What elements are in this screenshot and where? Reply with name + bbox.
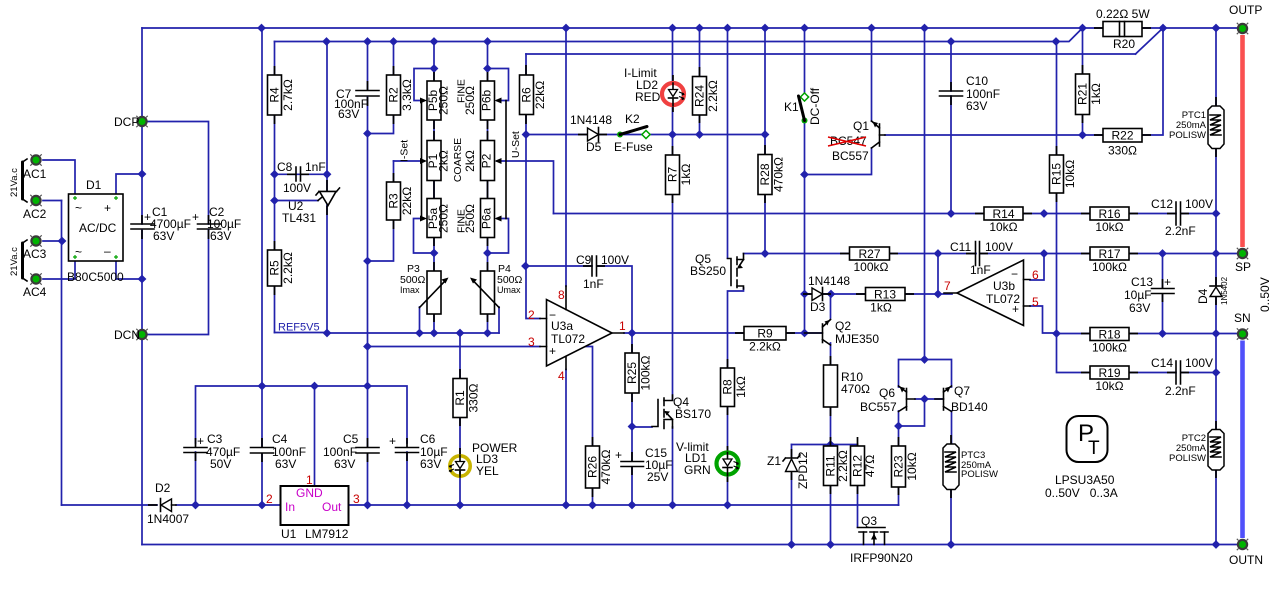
svg-text:AC3: AC3 [23, 247, 47, 261]
svg-text:U3b: U3b [993, 279, 1015, 293]
wire pin7 stub line [938, 293, 952, 295]
svg-text:C8: C8 [277, 160, 293, 174]
svg-text:DC-Off: DC-Off [808, 87, 822, 125]
resistor R7 [666, 155, 694, 195]
svg-text:1nF: 1nF [305, 160, 326, 174]
svg-text:Out: Out [322, 500, 342, 514]
svg-text:POLISW: POLISW [1169, 130, 1206, 141]
wire R25 column [631, 333, 633, 427]
wire C9 line y=266 [526, 266, 632, 333]
svg-text:8: 8 [558, 288, 565, 302]
svg-text:0.22Ω 5W: 0.22Ω 5W [1096, 7, 1150, 21]
svg-text:C10: C10 [966, 74, 988, 88]
svg-text:R22: R22 [1111, 129, 1133, 143]
resistor R10 [824, 365, 871, 407]
svg-text:C13: C13 [1131, 275, 1153, 289]
zener Z1 ZPD12 [767, 451, 810, 489]
svg-text:C4: C4 [272, 432, 288, 446]
svg-text:+: + [1164, 275, 1171, 289]
LED LD2 I-Limit (red) [624, 66, 685, 106]
svg-text:Umax: Umax [497, 285, 521, 295]
svg-text:330Ω: 330Ω [467, 383, 481, 412]
svg-text:R15: R15 [1050, 163, 1064, 185]
I-Set linkage [399, 101, 422, 219]
transistor Q7 BD140 [935, 384, 988, 414]
svg-text:1kΩ: 1kΩ [1089, 83, 1103, 105]
svg-text:Imax: Imax [400, 285, 420, 295]
svg-text:MJE350: MJE350 [835, 332, 879, 346]
resistor R25 [625, 353, 653, 393]
svg-text:7: 7 [944, 279, 951, 293]
svg-text:1N4007: 1N4007 [147, 512, 189, 526]
wire Q4 gate link [632, 426, 652, 428]
capacitor C4 [251, 432, 307, 471]
capacitor C12 [1151, 197, 1213, 238]
svg-text:100kΩ: 100kΩ [854, 260, 889, 274]
diode D4 [1196, 276, 1229, 305]
capacitor C1 [131, 205, 191, 243]
LED LD1 V-limit (green) [676, 440, 740, 477]
wire U-set sense drop y=213.5 [554, 213, 985, 215]
svg-text:R6: R6 [520, 87, 534, 103]
pad SN [1234, 311, 1251, 340]
svg-text:POLISW: POLISW [961, 469, 998, 480]
svg-text:R18: R18 [1098, 328, 1120, 342]
svg-text:OUTP: OUTP [1229, 3, 1262, 17]
svg-text:D5: D5 [586, 140, 602, 154]
svg-text:63V: 63V [210, 229, 231, 243]
svg-text:3.3kΩ: 3.3kΩ [400, 79, 414, 111]
svg-text:1kΩ: 1kΩ [734, 376, 748, 398]
svg-text:DCN: DCN [114, 328, 140, 342]
potentiometer P6b [463, 81, 502, 120]
wire R21 column [1082, 28, 1084, 135]
svg-text:C11: C11 [950, 240, 971, 254]
svg-text:AC2: AC2 [23, 207, 47, 221]
svg-text:R2: R2 [387, 87, 401, 103]
svg-text:T: T [1088, 438, 1100, 459]
svg-text:10kΩ: 10kΩ [1095, 379, 1123, 393]
resistor R15 [1050, 155, 1078, 193]
potentiometer P5b [420, 81, 451, 120]
pad SP [1235, 248, 1251, 274]
resistor R12 [851, 446, 878, 486]
svg-text:R17: R17 [1098, 247, 1120, 261]
svg-text:D1: D1 [86, 178, 102, 192]
resistor R3 [387, 182, 415, 220]
svg-text:R13: R13 [874, 288, 896, 302]
resistor R9 [744, 327, 786, 354]
svg-text:100kΩ: 100kΩ [639, 355, 653, 390]
svg-text:100V: 100V [985, 240, 1013, 254]
capacitor C8 [277, 160, 326, 195]
svg-text:63V: 63V [334, 457, 355, 471]
svg-text:1: 1 [306, 473, 313, 487]
svg-text:3: 3 [528, 335, 535, 349]
wire AC1 to D1 [43, 160, 75, 194]
wire pin2 column x=526 [526, 135, 540, 319]
svg-text:D4: D4 [1196, 288, 1210, 304]
svg-text:POLISW: POLISW [1169, 453, 1206, 464]
switch K1 DC-Off [784, 87, 822, 125]
svg-text:5: 5 [1032, 295, 1039, 309]
svg-text:U-Set: U-Set [510, 131, 522, 158]
svg-text:D3: D3 [810, 300, 826, 314]
svg-text:100kΩ: 100kΩ [1092, 341, 1127, 355]
pad AC2 [23, 195, 47, 221]
svg-text:2.2kΩ: 2.2kΩ [749, 340, 781, 354]
capacitor C13 [1124, 275, 1174, 315]
wire R6 column [525, 54, 527, 135]
mosfet Q4 BS170 [652, 395, 711, 429]
svg-text:3: 3 [353, 492, 360, 506]
PT logo [1045, 416, 1118, 500]
resistor R17 [1090, 247, 1129, 274]
svg-text:AC/DC: AC/DC [79, 221, 117, 235]
svg-text:R25: R25 [625, 362, 639, 384]
svg-text:0..50V: 0..50V [1258, 277, 1272, 312]
mosfet Q3 IRFP90N20 [850, 514, 913, 565]
resistor R11 [824, 446, 851, 486]
wire C3 bottom [195, 452, 197, 505]
wire Z1 column [791, 445, 793, 545]
svg-text:OUTN: OUTN [1229, 553, 1263, 567]
svg-text:K1: K1 [784, 100, 799, 114]
svg-text:AC4: AC4 [23, 285, 47, 299]
mosfet Q5 BS250 [690, 252, 744, 289]
svg-text:R21: R21 [1076, 83, 1090, 105]
svg-text:2.2nF: 2.2nF [1165, 384, 1196, 398]
wire diagonal bus3 to bus1 [1136, 28, 1164, 54]
svg-text:In: In [285, 500, 295, 514]
resistor R14 [984, 207, 1023, 234]
trimmer P3 [400, 263, 449, 314]
svg-text:Q7: Q7 [954, 384, 970, 398]
wire Q6-Q7 emitter bridge [899, 28, 952, 387]
svg-text:10µF: 10µF [1124, 288, 1152, 302]
svg-text:E-Fuse: E-Fuse [614, 140, 653, 154]
wire R3 column [368, 161, 394, 261]
wire Q2 emitter [830, 294, 832, 318]
transistor Q6 BC557 [860, 386, 915, 414]
wire P3 wiper drop [419, 307, 421, 333]
pad OUTN [1229, 539, 1263, 567]
svg-text:10kΩ: 10kΩ [1063, 160, 1077, 188]
resistor R28 [758, 155, 786, 195]
svg-text:2.2kΩ: 2.2kΩ [836, 450, 850, 482]
svg-text:+: + [615, 448, 622, 462]
op-amp U3a [528, 286, 626, 383]
capacitor C10 [940, 74, 1001, 113]
resistor R21 [1076, 74, 1104, 115]
svg-text:R27: R27 [858, 247, 880, 261]
wire Q1 base to R21-R22 y=135 [885, 28, 1163, 135]
wire Q1 emitter column [871, 28, 873, 121]
resistor R19 [1090, 366, 1129, 393]
wire R15 column x=1056.5 [1056, 42, 1058, 334]
regulator U1 LM7912 [266, 473, 360, 541]
svg-text:100V: 100V [283, 181, 311, 195]
svg-text:R5: R5 [268, 260, 282, 276]
svg-text:250Ω: 250Ω [437, 204, 451, 233]
svg-text:BC557: BC557 [832, 149, 869, 163]
wire R23 rail corner [898, 504, 900, 506]
svg-text:R23: R23 [892, 455, 906, 477]
wire R14-R16 line [1023, 213, 1216, 215]
resistor R8 [721, 368, 749, 407]
wire I-set pot column x=434 [433, 42, 435, 334]
wire Q2 collector to R10 [830, 343, 832, 446]
svg-text:R28: R28 [758, 163, 772, 185]
svg-text:U1: U1 [281, 527, 297, 541]
svg-text:Q6: Q6 [879, 386, 895, 400]
wire raw-minus column x=262 [261, 28, 263, 386]
capacitor C15 [615, 446, 673, 484]
pad AC4 [23, 273, 47, 299]
svg-text:Z1: Z1 [767, 454, 781, 468]
svg-text:R26: R26 [586, 456, 600, 478]
wire Q5 source to R8 [728, 288, 744, 368]
svg-text:TL072: TL072 [551, 332, 585, 346]
svg-text:63V: 63V [338, 107, 359, 121]
wire D1 plus out [116, 174, 142, 194]
svg-text:250Ω: 250Ω [437, 86, 451, 115]
svg-text:47Ω: 47Ω [863, 455, 877, 477]
svg-text:2: 2 [528, 308, 535, 322]
svg-text:LM7912: LM7912 [305, 527, 349, 541]
svg-text:TL072: TL072 [986, 292, 1020, 306]
svg-text:C9: C9 [576, 253, 592, 267]
PTC2 polyswitch [1169, 430, 1224, 471]
svg-text:FINE: FINE [456, 209, 468, 233]
wire P2 wiper link y=161 [497, 161, 554, 214]
wire K1 to Q1 collector [805, 148, 872, 175]
svg-text:R4: R4 [268, 87, 282, 103]
capacitor C2 [192, 205, 241, 243]
svg-text:R14: R14 [992, 207, 1014, 221]
wire R12 to Q3 gate [857, 445, 859, 528]
svg-text:R7: R7 [666, 167, 680, 183]
svg-text:+: + [549, 344, 556, 358]
wire K1 column x=804.5 [804, 28, 806, 333]
component lead stubs [142, 28, 1216, 505]
wire R17 line y=253.5 [1044, 253, 1238, 255]
svg-text:25V: 25V [647, 470, 668, 484]
thick red sense link OUTP-SP [1240, 35, 1245, 247]
svg-text:P6a: P6a [480, 208, 494, 230]
resistor R20 0.22ohm 5W [1096, 7, 1150, 51]
pad DCP [114, 115, 148, 129]
svg-text:4: 4 [558, 369, 565, 383]
svg-text:IRFP90N20: IRFP90N20 [850, 551, 913, 565]
svg-text:1nF: 1nF [970, 263, 991, 277]
wire P1 wiper link y=161 [394, 160, 425, 162]
wire R23 column [898, 426, 900, 505]
wire pin3 line y=346.5 [368, 346, 541, 348]
wire DCP to C2 column [142, 122, 209, 335]
capacitor C11 [950, 240, 1013, 277]
pad DCN [114, 328, 148, 342]
svg-text:C12: C12 [1151, 197, 1173, 211]
svg-text:U3a: U3a [551, 319, 573, 333]
wire C13 column [1162, 254, 1164, 334]
svg-text:C3: C3 [207, 432, 223, 446]
resistor R23 [892, 446, 920, 487]
svg-text:63V: 63V [153, 229, 174, 243]
svg-text:1: 1 [619, 319, 626, 333]
wire pin1 node to R9 y=333 [624, 332, 822, 334]
svg-text:470Ω: 470Ω [841, 382, 870, 396]
wire REF5V5 underline [275, 332, 328, 334]
resistor R16 [1090, 207, 1129, 234]
svg-text:100V: 100V [1185, 197, 1213, 211]
svg-text:GND: GND [296, 486, 323, 500]
wire R10 node y=444.5 [792, 444, 858, 446]
wire R11 bottom [830, 486, 832, 545]
capacitor C9 [576, 253, 629, 291]
svg-text:Q2: Q2 [835, 319, 851, 333]
potentiometer P6a [463, 199, 502, 238]
svg-text:R8: R8 [721, 379, 735, 395]
svg-text:B80C5000: B80C5000 [67, 270, 124, 284]
wire pin4 column x=566 [565, 370, 567, 506]
svg-text:0..50V 0..3A: 0..50V 0..3A [1045, 486, 1118, 500]
svg-text:TL431: TL431 [282, 211, 316, 225]
svg-text:6: 6 [1032, 268, 1039, 282]
svg-text:+: + [192, 210, 199, 224]
trimmer P4 [470, 263, 523, 314]
wire LD2-R7 column x=672.5 [672, 28, 674, 400]
diode D3 1N4148 [808, 274, 850, 314]
svg-text:BC557: BC557 [860, 400, 897, 414]
svg-text:P6b: P6b [480, 90, 494, 112]
resistor R5 [268, 250, 296, 286]
svg-text:SP: SP [1235, 260, 1251, 274]
pad AC3 [23, 235, 47, 261]
svg-text:10kΩ: 10kΩ [1095, 220, 1123, 234]
svg-text:+: + [197, 434, 204, 448]
svg-text:1kΩ: 1kΩ [679, 164, 693, 186]
svg-text:330Ω: 330Ω [1108, 144, 1137, 158]
wire R18-SN line y=333.5 [1057, 333, 1239, 335]
svg-text:2.2kΩ: 2.2kΩ [281, 252, 295, 284]
svg-text:Q3: Q3 [861, 514, 877, 528]
wire P5a wiper loop [414, 219, 435, 254]
resistor R27 [850, 247, 890, 274]
svg-text:22kΩ: 22kΩ [400, 187, 414, 215]
svg-text:2kΩ: 2kΩ [463, 150, 477, 172]
PTC1 polyswitch [1169, 106, 1224, 149]
wire Q5 drain link [744, 253, 766, 255]
wire negative rail y=505 [62, 504, 899, 506]
potentiometer P2 [463, 141, 502, 181]
svg-text:1kΩ: 1kΩ [870, 301, 892, 315]
wire C7-C5 column x=367.5 [367, 42, 369, 506]
svg-text:10kΩ: 10kΩ [989, 220, 1017, 234]
svg-text:D2: D2 [155, 481, 171, 495]
svg-text:1N4148: 1N4148 [570, 113, 612, 127]
svg-text:C6: C6 [420, 432, 436, 446]
wire Q6-Q7 base link [915, 398, 942, 400]
svg-text:2kΩ: 2kΩ [437, 150, 451, 172]
svg-text:BS250: BS250 [690, 264, 726, 278]
svg-text:50V: 50V [210, 457, 231, 471]
wire P5b wiper loop [414, 69, 434, 101]
wire pin7 feedback column [937, 254, 939, 295]
wire R8 to LD1 [727, 407, 729, 506]
wire C15 column [631, 427, 633, 505]
svg-text:2.2kΩ: 2.2kΩ [706, 80, 720, 112]
wire U-set pot column x=487.5 [487, 42, 489, 334]
svg-text:100V: 100V [601, 253, 629, 267]
svg-text:22kΩ: 22kΩ [533, 81, 547, 109]
wire pin5 link [1030, 306, 1057, 333]
resistor R13 [866, 288, 906, 315]
svg-text:63V: 63V [420, 457, 441, 471]
svg-text:2.2nF: 2.2nF [1165, 224, 1196, 238]
svg-text:R24: R24 [693, 85, 707, 107]
svg-text:470kΩ: 470kΩ [772, 157, 786, 192]
wire C10 column x=951 [950, 42, 952, 214]
svg-text:1N5402: 1N5402 [1220, 276, 1229, 305]
resistor R2 [387, 75, 415, 115]
capacitor C7 [334, 87, 379, 121]
wire R26 top link [584, 347, 593, 447]
svg-text:Q1: Q1 [853, 119, 869, 133]
resistor R22 [1103, 129, 1142, 158]
resistor R6 [520, 75, 548, 115]
svg-text:63V: 63V [966, 99, 987, 113]
wire R26 bottom [592, 488, 594, 505]
svg-text:21Va.c: 21Va.c [9, 247, 20, 276]
transistor Q1 BC557 [828, 119, 885, 163]
potentiometer P1 [420, 141, 451, 181]
capacitor C6 [389, 432, 448, 471]
wire C8 link y=174.3 [275, 173, 328, 175]
svg-text:C5: C5 [343, 432, 359, 446]
wire cap top bus y=386 [196, 386, 408, 443]
wire R1 column x=460 [459, 333, 461, 505]
svg-text:2.7kΩ: 2.7kΩ [281, 79, 295, 111]
capacitor C14 [1151, 356, 1213, 398]
svg-text:63V: 63V [1129, 301, 1150, 315]
wire R24 column [699, 28, 701, 135]
transistor Q2 MJE350 [805, 319, 880, 346]
svg-text:63V: 63V [275, 457, 296, 471]
svg-text:R1: R1 [453, 390, 467, 406]
svg-text:REF5V5: REF5V5 [278, 322, 320, 334]
capacitor C3 [184, 432, 240, 471]
switch K2 E-Fuse [614, 112, 653, 154]
bridge rectifier D1 [67, 178, 124, 284]
wire DCP-C1 column x=142 [141, 28, 143, 545]
svg-text:BS170: BS170 [675, 407, 711, 421]
wire U2 ref link y=200.5 [275, 200, 319, 202]
svg-text:2: 2 [266, 492, 273, 506]
svg-text:YEL: YEL [476, 464, 499, 478]
wire R28 column x=765 [764, 28, 766, 254]
svg-text:BD140: BD140 [951, 400, 988, 414]
wire Q7 collector to PTC3 [950, 411, 953, 545]
svg-text:COARSE: COARSE [452, 138, 464, 182]
svg-text:DCP: DCP [114, 115, 139, 129]
svg-text:I-Set: I-Set [399, 140, 411, 162]
pad AC1 [23, 154, 47, 181]
svg-text:K2: K2 [625, 112, 640, 126]
wire C11 line y=253.5 [1030, 254, 1044, 281]
svg-text:LPSU3A50: LPSU3A50 [1055, 473, 1115, 487]
wire R2 column [368, 42, 394, 134]
